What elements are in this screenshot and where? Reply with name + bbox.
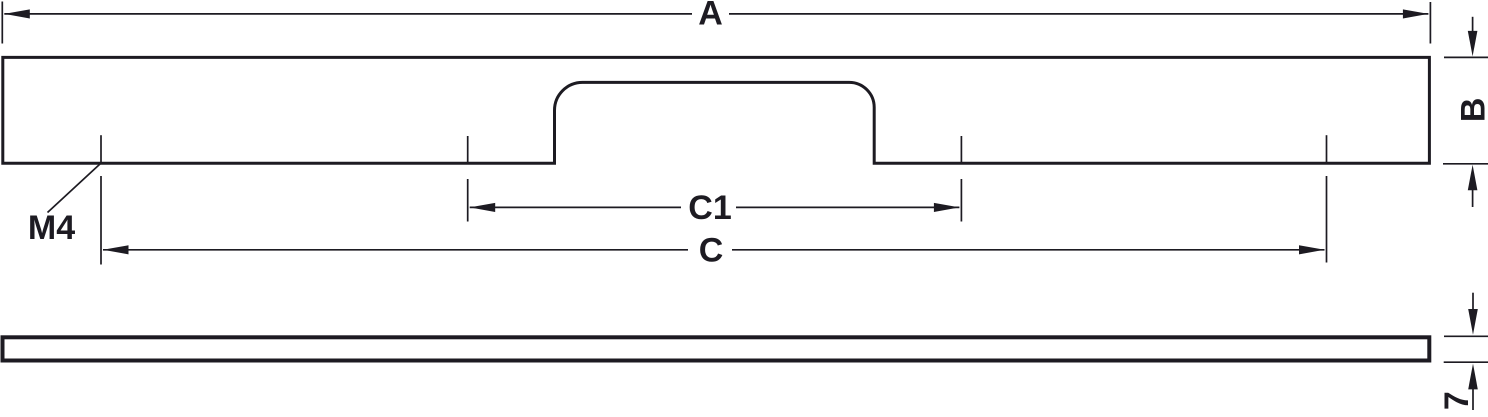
dimension 7 upper arrow line: [1472, 293, 1474, 311]
dimension A line left segment: [4, 13, 692, 15]
dimension 7 lower arrow line: [1472, 387, 1474, 410]
dimension C1 extension line left: [467, 179, 469, 222]
dimension C1 arrowhead left: [470, 203, 496, 212]
dimension C arrowhead left: [103, 245, 129, 254]
dimension 7 lower arrowhead: [1468, 364, 1478, 390]
dimension 7 upper arrowhead: [1468, 309, 1478, 335]
svg-text:B: B: [1455, 98, 1488, 123]
dimension B lower arrowhead: [1468, 165, 1478, 191]
dimension C extension line left: [100, 176, 102, 265]
dimension C line left segment: [103, 249, 688, 251]
C1 tick left: [467, 136, 469, 163]
M4 leader line: [48, 163, 101, 212]
dimension B extension line top: [1444, 56, 1488, 58]
handle front view outline: [3, 57, 1430, 163]
dimension A arrowhead left: [4, 9, 30, 18]
C1 tick right: [960, 136, 962, 163]
dimension B extension line bottom: [1443, 163, 1488, 165]
dimension 7 extension line top: [1444, 335, 1488, 337]
dimension C1 line left segment: [470, 206, 681, 208]
dimension B upper arrow line: [1472, 17, 1474, 33]
dimension A arrowhead right: [1403, 9, 1429, 18]
dimension C arrowhead right: [1299, 245, 1325, 254]
dimension C1 line right segment: [736, 206, 959, 208]
dimension C1 arrowhead right: [934, 203, 960, 212]
dimension B upper arrowhead: [1468, 31, 1478, 57]
dimension A line right segment: [729, 13, 1428, 15]
svg-text:M4: M4: [28, 209, 75, 247]
svg-text:C1: C1: [688, 189, 731, 227]
mounting hole tick right: [1326, 135, 1328, 163]
svg-text:7: 7: [1438, 391, 1476, 410]
svg-text:C: C: [699, 232, 724, 270]
svg-text:A: A: [698, 0, 723, 33]
handle side view bar: [3, 337, 1430, 360]
mounting hole tick left: [100, 135, 102, 163]
dimension A extension line right: [1429, 2, 1431, 44]
dimension C extension line right: [1326, 176, 1328, 263]
dimension A extension line left: [1, 2, 3, 44]
dimension 7 extension line bottom: [1444, 361, 1488, 363]
dimension C line right segment: [732, 249, 1325, 251]
dimension C1 extension line right: [960, 179, 962, 222]
dimension B lower arrow line: [1472, 189, 1474, 207]
